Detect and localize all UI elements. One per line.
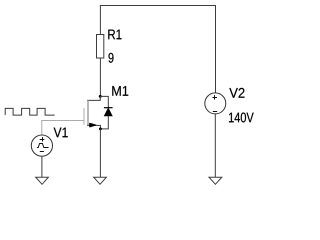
pulse glyph — [37, 144, 49, 148]
drain lead — [87, 96, 100, 100]
body diode cathode bar — [104, 107, 113, 109]
wire R1 bottom to drain node — [99, 58, 101, 96]
minus — [40, 151, 44, 153]
node drain junction — [99, 95, 102, 98]
plus — [213, 95, 218, 99]
wire gate net from V1 to gate (grey) — [42, 121, 85, 135]
plus — [40, 137, 45, 141]
pulse annotation square wave — [5, 108, 55, 115]
ground under M1 — [94, 177, 107, 184]
voltage source V1 — [31, 128, 67, 157]
voltage source V2 — [205, 88, 254, 123]
label V2 — [229, 88, 244, 98]
wire top-left vertical from R1 top to top rail — [99, 6, 101, 35]
wire source node to ground — [99, 129, 101, 177]
node source junction — [99, 127, 102, 130]
wire V2 bottom to ground — [214, 114, 216, 177]
body diode link top — [100, 96, 108, 107]
gate bar — [83, 108, 85, 125]
body diode triangle — [104, 108, 112, 116]
label M1 — [112, 86, 128, 96]
transistor M1 — [84, 86, 128, 129]
label 140V — [229, 113, 254, 123]
wire right drop to V2 — [215, 6, 217, 94]
body diode link bottom — [100, 116, 108, 129]
source lead — [87, 125, 100, 128]
wire V1 bottom to ground — [41, 156, 43, 177]
label V1 — [54, 128, 68, 138]
minus — [213, 111, 217, 113]
source arrow — [90, 123, 96, 127]
ground under V2 — [209, 177, 222, 184]
wire top rail — [100, 5, 216, 7]
resistor R1 — [97, 30, 122, 63]
ground under V1 — [36, 177, 49, 184]
channel bar — [87, 100, 89, 125]
